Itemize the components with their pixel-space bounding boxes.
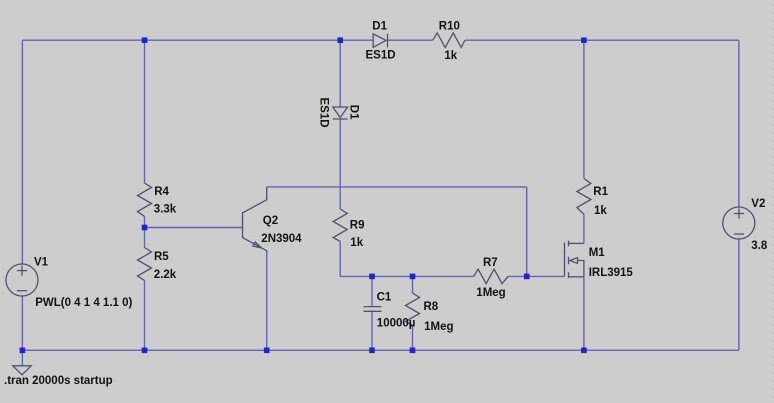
junction node R7 right [524, 274, 530, 280]
svg-text:V1: V1 [34, 256, 49, 268]
wire R1 bottom lead to M1 drain [583, 214, 585, 243]
svg-text:2N3904: 2N3904 [261, 233, 302, 245]
junction node C1 top [369, 274, 375, 280]
svg-text:.tran 20000s startup: .tran 20000s startup [4, 375, 113, 387]
resistor R10 [433, 33, 465, 48]
wire R8 bottom lead [412, 326, 414, 351]
resistor R8 [406, 293, 420, 326]
wire R8 top lead [412, 276, 414, 293]
svg-text:R9: R9 [350, 219, 365, 231]
svg-text:ES1D: ES1D [318, 98, 330, 128]
resistor R9 [333, 209, 347, 242]
svg-text:D1: D1 [348, 105, 360, 120]
voltage source V2 plus sign [734, 208, 744, 218]
wire top rail left segment [22, 39, 373, 41]
svg-text:3.8: 3.8 [751, 240, 768, 252]
wire top junction to vertical D1 anode [339, 40, 341, 107]
junction R4-R5 base node [142, 225, 148, 231]
wire top rail between D1 and R10 [388, 39, 433, 41]
svg-text:V2: V2 [751, 198, 765, 210]
wire left rail upper (top to V1 plus) [21, 40, 23, 264]
mosfet M1 drain stub [569, 242, 584, 244]
wire R1 top lead [583, 40, 585, 178]
svg-text:3.3k: 3.3k [154, 203, 177, 215]
wire left rail lower (V1 minus to bottom) [21, 296, 23, 350]
wire C1 top lead [371, 276, 373, 306]
wire M1 source to bottom rail [583, 277, 585, 350]
junction top rail R4 branch [142, 37, 148, 43]
resistor R7 [474, 269, 509, 283]
svg-text:C1: C1 [377, 291, 392, 303]
voltage source V1 minus sign [17, 290, 27, 292]
wire vertical D1 cathode to R9 [339, 119, 341, 209]
mosfet M1 gate bar [564, 243, 566, 277]
wire R4-R5 middle leads [144, 217, 146, 248]
junction top rail D1 branch [337, 37, 343, 43]
svg-text:2.2k: 2.2k [154, 269, 177, 281]
wire node to R7 left [340, 275, 473, 277]
resistor R1 [577, 179, 591, 215]
wire right rail lower (V2 minus to bottom) [738, 239, 740, 350]
wire C1 bottom lead [371, 311, 373, 350]
voltage source V2 minus sign [734, 233, 744, 235]
junction bottom rail Q2 emitter [264, 348, 270, 354]
svg-text:D1: D1 [372, 21, 387, 33]
junction bottom rail C1 [369, 348, 375, 354]
wire ground stub [21, 350, 23, 366]
junction bottom rail ground [20, 348, 26, 354]
svg-text:R8: R8 [424, 301, 439, 313]
voltage source V1 plus sign [17, 266, 27, 276]
mosfet M1 source stub [569, 276, 584, 278]
voltage source V1 circle [6, 264, 38, 296]
junction top rail R1 branch [581, 37, 587, 43]
svg-text:R7: R7 [483, 257, 498, 269]
svg-text:10000µ: 10000µ [377, 318, 416, 330]
wire bottom rail [22, 349, 738, 351]
mosfet M1 channel segments [568, 241, 570, 278]
wire Q2 collector rail [267, 186, 527, 188]
resistor R5 [138, 248, 152, 281]
wire Q2 emitter to bottom rail [266, 251, 268, 351]
svg-text:1k: 1k [594, 205, 607, 217]
voltage source V2 circle [723, 207, 755, 239]
junction bottom rail R5 [142, 348, 148, 354]
resistor R4 [138, 183, 152, 217]
svg-text:ES1D: ES1D [366, 50, 396, 62]
svg-text:R1: R1 [593, 186, 608, 198]
transistor Q2 [243, 187, 267, 252]
svg-text:IRL3915: IRL3915 [589, 267, 634, 279]
svg-text:M1: M1 [589, 247, 606, 259]
svg-text:1k: 1k [350, 237, 363, 249]
wire collector rail down to node [526, 187, 528, 277]
wire R5 bottom lead [144, 281, 146, 351]
junction bottom rail R8 [410, 348, 416, 354]
wire base of Q2 [145, 227, 243, 229]
mosfet M1 body stub and arrow [570, 258, 584, 277]
svg-text:1k: 1k [444, 50, 457, 62]
junction node R8 top [410, 274, 416, 280]
capacitor C1 [364, 307, 382, 312]
wire R9 bottom lead [339, 242, 341, 277]
wire R4 top lead [144, 40, 146, 183]
diode D1 vertical [333, 107, 348, 119]
svg-text:1Meg: 1Meg [476, 287, 505, 299]
svg-text:PWL(0 4 1 4 1.1 0): PWL(0 4 1 4 1.1 0) [35, 297, 132, 309]
svg-text:R10: R10 [439, 21, 460, 33]
ground [13, 366, 31, 375]
svg-text:R4: R4 [154, 186, 169, 198]
svg-text:R5: R5 [154, 251, 169, 263]
wire top rail right segment [465, 39, 739, 41]
diode D1 horizontal [373, 34, 387, 48]
transistor Q2 emitter arrow [253, 242, 262, 248]
svg-text:1Meg: 1Meg [424, 321, 453, 333]
wire right rail upper (to V2 plus) [738, 40, 740, 207]
wire R7 right to M1 gate [508, 275, 564, 277]
junction bottom rail M1 source [581, 348, 587, 354]
svg-text:Q2: Q2 [263, 215, 278, 227]
